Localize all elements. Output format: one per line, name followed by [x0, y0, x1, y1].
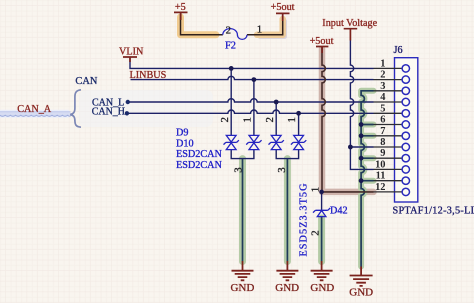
wire D9 pin3 to GND: [242, 159, 244, 261]
wire D10 pin3 to GND: [286, 159, 288, 261]
junction pin8/InputVoltage: [348, 145, 353, 150]
label connector pin numbers: [375, 58, 385, 193]
harness line CAN_A: [0, 112, 71, 116]
wire +5out vertical (hops pins1,2,4,5) to pin12: [322, 47, 374, 192]
wire Input Voltage vertical (hops pins1,2,4,5) corner to pin10: [350, 41, 373, 170]
svg-text:2: 2: [264, 117, 276, 122]
junction +5out/D42: [319, 190, 324, 195]
net highlight GND connector halo: [361, 91, 373, 267]
svg-text:2: 2: [310, 230, 322, 235]
svg-text:SPTAF1/12-3,5-LL: SPTAF1/12-3,5-LL: [393, 206, 474, 217]
power port +5out top: [276, 13, 290, 21]
svg-text:CAN_H: CAN_H: [92, 107, 125, 118]
wire pin8 stub: [350, 146, 373, 148]
svg-text:GND: GND: [349, 287, 373, 299]
fuse F2 symbol: [223, 29, 247, 40]
svg-text:6: 6: [380, 115, 385, 126]
svg-text:11: 11: [376, 171, 386, 182]
wire LINBUS to pin2 (hop over V1): [131, 76, 374, 79]
TVS diode D10 element A: [269, 135, 284, 149]
junction LINBUS/V2: [252, 77, 257, 82]
net highlight +5 wire halo: [181, 17, 217, 35]
svg-text:LINBUS: LINBUS: [130, 70, 167, 81]
zener diode D42: [313, 208, 330, 217]
svg-text:ESD5Z3.3T5G: ESD5Z3.3T5G: [298, 182, 309, 256]
connector J6 pins: [374, 68, 403, 191]
connector J6 pin circles: [402, 65, 409, 196]
power port +5out mid: [316, 47, 328, 54]
ground GND connector: [350, 267, 373, 286]
junction pin6/GND: [359, 122, 364, 127]
svg-text:GND: GND: [275, 282, 299, 294]
svg-text:+5out: +5out: [271, 2, 295, 13]
svg-text:8: 8: [380, 137, 385, 148]
net highlight GND pin stubs halo: [361, 125, 373, 181]
svg-text:3: 3: [380, 81, 385, 92]
wire V1 VLIN to D9 pin2: [230, 68, 232, 135]
svg-text:F2: F2: [225, 40, 236, 51]
net highlight +5out top wire halo shadow: [260, 21, 285, 37]
svg-text:4: 4: [380, 92, 385, 103]
wire GND connector vertical (hops over CAN_L,CAN_H,pin8,pin10,+5out): [361, 91, 373, 267]
wire VLIN to pin1: [130, 58, 374, 68]
junction pin7/GND: [359, 133, 364, 138]
svg-text:CAN_A: CAN_A: [17, 104, 52, 115]
svg-text:J6: J6: [394, 45, 403, 56]
svg-text:10: 10: [375, 159, 385, 170]
node CAN_L harness entry: [126, 100, 130, 104]
ground GND D42: [311, 261, 333, 280]
svg-text:9: 9: [380, 148, 385, 159]
svg-text:GND: GND: [230, 282, 254, 294]
svg-text:1: 1: [257, 24, 262, 36]
wire V4 CAN_H to D10 pin1: [298, 113, 300, 135]
harness brace: [70, 90, 81, 127]
wire V2 LINBUS to D9 pin1: [253, 80, 255, 136]
wire +5 to fuse: [181, 14, 223, 35]
svg-text:ESD2CAN: ESD2CAN: [176, 149, 222, 160]
svg-text:D10: D10: [176, 138, 194, 149]
svg-text:2: 2: [219, 117, 231, 122]
svg-text:1: 1: [242, 117, 254, 122]
wire D42 cathode link: [321, 192, 323, 210]
svg-text:GND: GND: [310, 282, 334, 294]
net highlight GND D42 halo: [318, 218, 325, 262]
net highlight +5out vertical halo: [322, 49, 374, 192]
svg-text:ESD2CAN: ESD2CAN: [176, 160, 222, 171]
svg-text:D9: D9: [176, 128, 188, 139]
junction CAN_H/V4: [296, 111, 301, 116]
svg-text:Input Voltage: Input Voltage: [322, 18, 377, 29]
wire V3 CAN_L to D10 pin2: [275, 102, 277, 135]
wire fuse to +5out: [247, 15, 283, 35]
ground GND D10: [276, 261, 298, 280]
wire D10 bottom join: [276, 150, 298, 159]
svg-text:2: 2: [226, 24, 231, 36]
wire D42 anode to GND: [321, 217, 323, 261]
connector J6 body: [395, 58, 418, 202]
svg-text:VLIN: VLIN: [119, 46, 144, 57]
svg-text:D42: D42: [330, 206, 348, 217]
svg-text:1: 1: [286, 117, 298, 122]
wire GND pin stubs 6,7,9,11: [361, 125, 373, 181]
svg-text:7: 7: [380, 126, 385, 137]
wire D9 bottom join: [231, 150, 254, 159]
svg-text:+5out: +5out: [310, 36, 334, 47]
junction VLIN/V1: [229, 66, 234, 71]
svg-text:2: 2: [380, 70, 385, 81]
harness CAN_A glow: [0, 110, 69, 118]
net highlight GND D10 halo: [284, 159, 291, 262]
svg-text:1: 1: [380, 58, 385, 69]
power port +5: [174, 12, 188, 20]
ground GND D9: [232, 261, 254, 280]
svg-text:3: 3: [276, 167, 288, 172]
net highlight GND D9 halo: [239, 159, 246, 262]
TVS diode D10 element B: [291, 135, 306, 149]
power port Input Voltage: [344, 29, 358, 41]
wire CAN_L to pin4 (hops over V1,V2): [128, 99, 374, 102]
TVS diode D9 element A: [224, 135, 239, 149]
wire CAN_H to pin5 (hops over V1,V2,V3): [127, 110, 374, 113]
junction pin11/GND: [359, 178, 364, 183]
harness panel: [79, 90, 213, 127]
net highlight +5out top wire halo: [257, 19, 283, 35]
svg-text:+5: +5: [175, 2, 186, 13]
svg-text:CAN: CAN: [75, 76, 97, 87]
node CAN_H harness entry: [125, 111, 129, 115]
svg-text:1: 1: [310, 187, 322, 192]
power port VLIN: [123, 57, 137, 62]
junction CAN_L/V3: [274, 100, 279, 105]
svg-text:5: 5: [380, 103, 385, 114]
TVS diode D9 element B: [246, 135, 261, 149]
svg-text:3: 3: [233, 167, 245, 172]
svg-text:12: 12: [375, 182, 385, 193]
junction pin9/GND: [359, 156, 364, 161]
